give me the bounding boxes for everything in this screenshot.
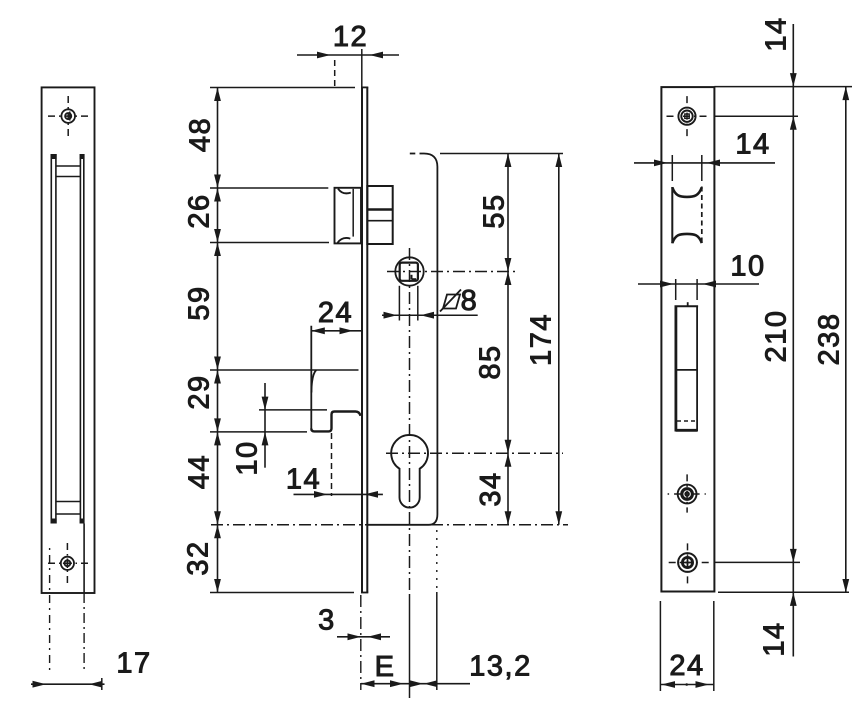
svg-text:24: 24 xyxy=(318,297,353,329)
svg-text:238: 238 xyxy=(814,313,846,366)
svg-text:174: 174 xyxy=(526,313,558,366)
svg-text:13,2: 13,2 xyxy=(469,651,531,683)
svg-text:44: 44 xyxy=(184,454,216,489)
svg-text:29: 29 xyxy=(184,374,216,409)
svg-text:59: 59 xyxy=(184,285,216,320)
svg-text:55: 55 xyxy=(479,193,511,228)
svg-text:24: 24 xyxy=(669,650,704,682)
svg-text:32: 32 xyxy=(183,540,215,575)
svg-text:8: 8 xyxy=(461,285,479,317)
svg-text:14: 14 xyxy=(735,129,770,161)
svg-text:17: 17 xyxy=(116,648,151,680)
svg-text:10: 10 xyxy=(730,251,765,283)
svg-text:48: 48 xyxy=(185,117,217,152)
svg-text:12: 12 xyxy=(333,21,368,53)
svg-text:10: 10 xyxy=(232,440,264,475)
svg-text:14: 14 xyxy=(761,16,793,51)
svg-text:E: E xyxy=(375,651,396,683)
svg-text:34: 34 xyxy=(475,471,507,506)
svg-text:3: 3 xyxy=(318,605,336,637)
svg-text:26: 26 xyxy=(184,193,216,228)
svg-text:14: 14 xyxy=(286,464,321,496)
svg-text:210: 210 xyxy=(761,310,793,363)
svg-text:85: 85 xyxy=(475,344,507,379)
svg-text:14: 14 xyxy=(759,621,791,656)
